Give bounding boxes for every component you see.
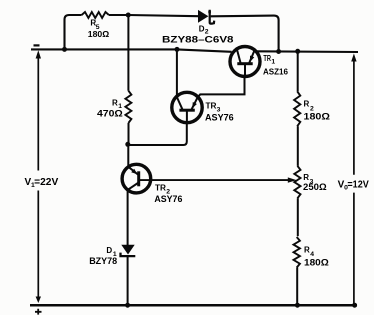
svg-text:ASZ16: ASZ16 [263, 66, 288, 76]
svg-text:470Ω: 470Ω [97, 108, 123, 118]
svg-text:=12V: =12V [347, 180, 369, 191]
svg-text:180Ω: 180Ω [88, 29, 110, 39]
svg-text:BZY78: BZY78 [89, 256, 117, 266]
svg-text:R: R [112, 98, 118, 107]
svg-text:TR: TR [155, 184, 166, 193]
svg-text:180Ω: 180Ω [304, 258, 329, 268]
svg-text:ASY76: ASY76 [205, 112, 234, 122]
svg-text:R: R [304, 99, 310, 108]
svg-text:R: R [304, 246, 310, 255]
svg-text:ASY76: ASY76 [154, 194, 182, 204]
svg-text:TR: TR [206, 101, 217, 110]
svg-text:TR: TR [263, 54, 271, 63]
svg-text:1: 1 [271, 59, 275, 66]
svg-text:R: R [303, 173, 309, 182]
svg-text:BZY88–C6V8: BZY88–C6V8 [162, 34, 234, 44]
svg-text:250Ω: 250Ω [303, 182, 327, 192]
svg-text:D: D [106, 246, 112, 255]
svg-text:=22V: =22V [34, 177, 58, 188]
svg-text:180Ω: 180Ω [304, 111, 330, 121]
svg-text:D: D [199, 24, 205, 33]
